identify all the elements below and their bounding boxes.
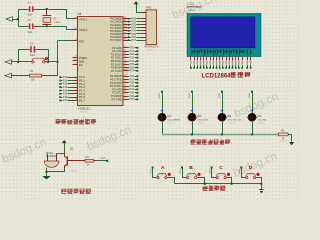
- svg-text:D2: D2: [197, 114, 201, 118]
- wire LED 4 anode: [252, 92, 254, 114]
- resistor R1 10k: [13, 75, 30, 77]
- wire reset rail: [13, 61, 32, 63]
- crystal X1: [46, 8, 48, 10]
- U1 P0 pins, wires to RP1: [123, 18, 128, 20]
- wire LED 1 cathode: [162, 121, 164, 135]
- wire LED 4 cathode: [252, 121, 254, 135]
- node LED feed 3: [221, 91, 223, 93]
- resistor pack RP1 RESPACK-8: [141, 12, 147, 14]
- ground (LED rail): [289, 142, 293, 144]
- label 按键选择 red caption: [202, 185, 208, 190]
- terminal gnd arrow (crystal): [6, 17, 13, 22]
- svg-text:RP1: RP1: [146, 6, 152, 10]
- svg-text:<TEXT>: <TEXT>: [167, 122, 175, 125]
- svg-text:10uF: 10uF: [30, 55, 36, 57]
- wire emitter to ground: [47, 169, 65, 172]
- ground (buttons): [259, 189, 263, 191]
- svg-text:P37: P37: [130, 98, 135, 101]
- push button A: [157, 177, 159, 179]
- svg-text:LED-BLUE: LED-BLUE: [197, 120, 208, 122]
- wire LED 3 anode: [222, 92, 224, 114]
- svg-text:P2.7/A15: P2.7/A15: [111, 69, 123, 73]
- push button D: [246, 177, 248, 179]
- label 垃圾类型指示灯 red caption: [190, 139, 196, 144]
- svg-text:30pF: 30pF: [28, 15, 34, 17]
- svg-text:LED-GREEN: LED-GREEN: [167, 120, 180, 122]
- wire LED common rail: [162, 134, 278, 136]
- wire LED 2 anode: [192, 92, 194, 114]
- svg-text:RESPACK-8: RESPACK-8: [145, 46, 160, 49]
- svg-text:D3: D3: [227, 114, 231, 118]
- svg-text:XTAL1: XTAL1: [79, 18, 88, 22]
- wire to button B: [183, 168, 187, 178]
- svg-text:P3.7/RD: P3.7/RD: [112, 97, 122, 101]
- wire gnd rail for crystal caps: [18, 9, 20, 26]
- push button reset: [32, 61, 34, 63]
- svg-text:Q1: Q1: [70, 147, 74, 151]
- push button B: [187, 177, 189, 179]
- svg-text:C: C: [219, 165, 223, 171]
- svg-text:12MHZ: 12MHZ: [54, 22, 62, 24]
- svg-text:<TEXT>: <TEXT>: [79, 110, 88, 113]
- svg-text:P27: P27: [130, 70, 135, 73]
- label 单片机最小系统 red caption: [55, 119, 61, 124]
- capacitor C1 30pF: [18, 9, 27, 11]
- svg-text:<TEXT>: <TEXT>: [146, 49, 154, 52]
- capacitor C3 electrolytic: [30, 46, 32, 53]
- resistor R3 base: [67, 160, 85, 162]
- wire button C to rail: [227, 178, 232, 184]
- svg-text:<TEXT>: <TEXT>: [187, 9, 196, 12]
- svg-text:AMPIRE128X64: AMPIRE128X64: [187, 6, 202, 9]
- node buzzer drive: [106, 160, 108, 162]
- node LED feed 4: [251, 91, 253, 93]
- svg-text:D1: D1: [167, 114, 171, 118]
- wire buzzer to ground: [46, 168, 48, 176]
- node button C input: [211, 167, 213, 169]
- node button B input: [181, 167, 183, 169]
- U1 left control pins: [73, 18, 78, 20]
- node button A input: [152, 167, 154, 169]
- svg-text:R2: R2: [281, 129, 285, 133]
- capacitor C2 30pF: [18, 26, 27, 28]
- wire XTAL1: [47, 9, 66, 11]
- svg-text:LED-YELLOW: LED-YELLOW: [227, 120, 242, 122]
- svg-text:<TEXT>: <TEXT>: [227, 122, 235, 125]
- wire button B to rail: [197, 178, 205, 184]
- svg-text:P07: P07: [132, 39, 137, 42]
- svg-text:AT89C51: AT89C51: [78, 106, 91, 110]
- svg-text:EA: EA: [79, 63, 83, 67]
- svg-text:R1: R1: [30, 69, 34, 73]
- ground (buzzer): [43, 176, 50, 178]
- LCD pins and wires: [190, 56, 192, 60]
- wire LED 3 cathode: [222, 121, 224, 135]
- wire button common rail: [175, 183, 262, 185]
- svg-text:P0.7/AD7: P0.7/AD7: [110, 38, 122, 42]
- wire reset button to RST: [45, 61, 58, 63]
- diode D2 LED-BLUE: [188, 113, 196, 121]
- wire R2 to ground: [288, 134, 292, 136]
- op U1 AT89C51 microcontroller: [78, 17, 124, 106]
- node button D input: [240, 167, 242, 169]
- node LED feed 2: [191, 91, 193, 93]
- svg-text:C2: C2: [28, 18, 32, 22]
- svg-text:<TEXT>: <TEXT>: [257, 122, 265, 125]
- diode D3 LED-YELLOW: [218, 113, 226, 121]
- wire vcc to collector node: [64, 143, 66, 153]
- wire button D to rail: [256, 178, 262, 184]
- wire rail to ground: [261, 184, 263, 190]
- wire XTAL2: [47, 26, 66, 28]
- wire vcc to RP1 pin1: [136, 4, 138, 13]
- svg-text:RST: RST: [79, 40, 85, 44]
- svg-text:30pF: 30pF: [28, 32, 34, 34]
- wire button A to rail: [167, 178, 175, 184]
- svg-text:U1: U1: [78, 12, 82, 16]
- svg-text:D: D: [249, 165, 253, 171]
- terminal arrow (R1 gnd): [5, 73, 12, 78]
- wire to button A: [153, 168, 157, 178]
- node LED feed 1: [161, 91, 163, 93]
- svg-text:LCD1: LCD1: [187, 2, 194, 6]
- svg-text:C1: C1: [28, 1, 32, 5]
- svg-text:<TEXT>: <TEXT>: [280, 140, 288, 143]
- wire base resistor to node: [97, 160, 106, 162]
- power vcc arrow (RP1): [134, 1, 138, 4]
- svg-text:XTAL2: XTAL2: [79, 28, 88, 32]
- svg-text:<TEXT>: <TEXT>: [70, 170, 78, 173]
- wire to button D: [242, 168, 246, 178]
- wire to button C: [212, 168, 217, 178]
- svg-text:P17: P17: [63, 99, 68, 102]
- terminal arrow (reset): [5, 60, 12, 65]
- power vcc arrow (buzzer): [62, 140, 66, 143]
- diode D4 LED-RED: [248, 113, 256, 121]
- svg-text:P1.7: P1.7: [79, 98, 85, 102]
- wire C3 to reset node: [48, 49, 50, 62]
- wire LED 2 cathode: [192, 121, 194, 135]
- U1 P1.0-P1.7 pins and wires: [59, 76, 61, 78]
- svg-text:B: B: [189, 165, 193, 171]
- push button C: [216, 177, 218, 179]
- svg-text:R3: R3: [86, 155, 90, 159]
- svg-text:D4: D4: [257, 114, 261, 118]
- svg-text:LED-RED: LED-RED: [257, 120, 267, 122]
- wire buzzer to collector: [56, 153, 64, 155]
- svg-text:<TEXT>: <TEXT>: [197, 122, 205, 125]
- svg-text:LCD12864: LCD12864: [202, 74, 232, 80]
- U1 P3 pins and labelled wires: [123, 76, 128, 78]
- U1 P2 pins and labelled wires: [123, 47, 128, 49]
- diode D1 LED-GREEN: [158, 113, 166, 121]
- svg-text:C3: C3: [30, 41, 34, 45]
- svg-text:A: A: [161, 165, 165, 171]
- wire LED 1 anode: [162, 92, 164, 114]
- label 蜂鸣器报警 red caption: [61, 189, 67, 193]
